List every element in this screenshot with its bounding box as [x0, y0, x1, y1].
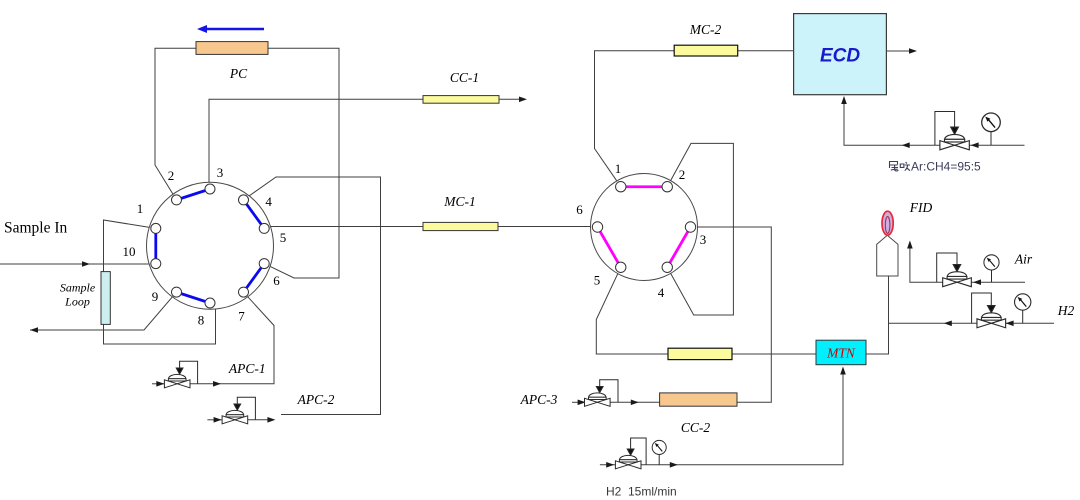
port V1-10 [151, 259, 161, 269]
label V1 numbers [123, 165, 287, 328]
arrow H2 bottom input [606, 462, 614, 468]
arrow Air input [973, 279, 981, 285]
wire valve2 port1 to MC-2 to ECD [595, 51, 794, 187]
wire makeup gas line to ECD [844, 97, 1025, 145]
arrow CC-1 out [519, 97, 527, 103]
wire Air line with riser [910, 242, 1025, 282]
label makeup gas chinese [889, 162, 910, 172]
arrow makeup input [971, 142, 979, 148]
svg-text:1: 1 [137, 201, 144, 216]
port V2-3 [685, 222, 695, 232]
arrow APC-2 output [267, 417, 275, 423]
wire APC-2 output [248, 419, 268, 421]
rotor V1 6-7 [244, 264, 265, 293]
port V1-6 [259, 259, 269, 269]
svg-text:CC-2: CC-2 [681, 420, 711, 435]
arrow APC-1 out [213, 381, 221, 387]
svg-text:ECD: ECD [820, 46, 860, 67]
label V2 numbers [576, 161, 706, 300]
svg-text:2: 2 [679, 167, 686, 182]
svg-text:2: 2 [168, 168, 175, 183]
port V1-4 [239, 195, 249, 205]
arrow makeup output [902, 142, 910, 148]
sample loop [101, 272, 110, 325]
port V1-3 [205, 184, 215, 194]
rotor V1 8-9 [177, 292, 211, 303]
svg-text:MC-1: MC-1 [443, 194, 476, 209]
svg-text:H2: H2 [1057, 303, 1075, 318]
svg-text:5: 5 [280, 230, 287, 245]
arrow H2 right output [944, 321, 952, 327]
svg-text:10: 10 [123, 244, 136, 259]
arrow APC-2 input [214, 417, 222, 423]
rotor V1 4-5 [244, 200, 265, 229]
regulator APC-2 [222, 397, 255, 424]
port V2-5 [616, 262, 626, 272]
svg-text:APC-3: APC-3 [520, 392, 558, 407]
valve V1 body [147, 182, 274, 309]
gauge H2 bottom [652, 440, 666, 464]
svg-text:3: 3 [217, 165, 224, 180]
wire valve1 port9 vent out [30, 292, 177, 330]
arrow H2 bottom output [670, 462, 678, 468]
valve V2 body [591, 174, 698, 281]
wire valve2 port5 to column to MTN [596, 267, 816, 354]
svg-text:Loop: Loop [64, 295, 90, 309]
svg-text:5: 5 [594, 273, 601, 288]
arrow into MTN bottom [840, 367, 846, 375]
wire valve1 port7 from APC-1 [190, 292, 274, 384]
methanizer MTN box [816, 340, 866, 365]
svg-text:7: 7 [238, 309, 245, 324]
wire valve1 port2 to PC left [155, 48, 196, 200]
port V1-2 [172, 195, 182, 205]
column CC-2 [660, 393, 737, 406]
wire H2 right line to FID junction [889, 322, 1055, 324]
wire Sample In to valve1 port 10 [0, 263, 156, 265]
arrow ECD outlet [909, 48, 917, 54]
rotor V1 2-3 [177, 189, 211, 200]
port V2-2 [662, 182, 672, 192]
wire APC-3 input [572, 401, 586, 403]
wire PC right to valve1 port6 [264, 48, 339, 278]
svg-text:CC-1: CC-1 [450, 70, 479, 85]
port V1-8 [205, 298, 215, 308]
svg-text:8: 8 [198, 313, 205, 328]
arrow carrier flow above PC [205, 28, 264, 31]
svg-text:4: 4 [265, 194, 272, 209]
column MC-1 [423, 222, 498, 230]
svg-text:APC-1: APC-1 [228, 361, 266, 376]
arrow vent left [30, 327, 38, 333]
rotor V1 1-10 [154, 228, 157, 263]
regulator Air [937, 253, 972, 287]
svg-text:MTN: MTN [826, 346, 856, 361]
rotor V2 3-4 [667, 227, 690, 267]
regulator makeup (wei chui) [935, 112, 969, 150]
arrow APC-1 input [156, 381, 164, 387]
column aux yellow [668, 348, 732, 359]
svg-text:Sample In: Sample In [4, 220, 68, 237]
wire MC-1 line valve1 port5 to valve2 port6 [264, 227, 597, 229]
detector ECD box [794, 14, 887, 95]
svg-text:Ar:CH4=95:5: Ar:CH4=95:5 [911, 160, 981, 174]
regulator H2 right [972, 293, 1006, 328]
svg-text:MC-2: MC-2 [689, 22, 722, 37]
svg-text:H2 15ml/min: H2 15ml/min [606, 485, 677, 499]
svg-text:Air: Air [1014, 252, 1033, 267]
svg-text:Sample: Sample [60, 281, 96, 295]
wire ECD outlet [886, 50, 910, 52]
rotor V2 5-6 [598, 227, 621, 267]
wire APC-1 input [152, 383, 164, 385]
port V1-7 [239, 287, 249, 297]
column CC-1 [423, 96, 499, 104]
svg-text:9: 9 [152, 289, 159, 304]
arrow Sample In flow [82, 261, 90, 267]
port V1-5 [259, 223, 269, 233]
wire MTN right up to FID bottom [866, 276, 889, 354]
wire valve2 loop port2 to port4 [667, 143, 733, 315]
column MC-2 [674, 45, 738, 56]
port V2-1 [616, 182, 626, 192]
svg-text:3: 3 [700, 232, 707, 247]
wire APC-2 input [207, 419, 221, 421]
arrow H2 right input [1006, 321, 1014, 327]
FID flame [882, 211, 893, 235]
arrow Air riser up [907, 241, 913, 249]
wire valve1 port4 from APC-2 [244, 177, 381, 415]
detector FID body [877, 235, 898, 276]
regulator H2 bottom [615, 438, 646, 469]
port V2-6 [592, 222, 602, 232]
svg-text:1: 1 [615, 161, 622, 176]
svg-text:6: 6 [576, 202, 583, 217]
wire valve2 port3 to CC-2 to APC-3 [609, 227, 771, 402]
svg-text:6: 6 [273, 273, 280, 288]
arrow into CC-2 [631, 400, 639, 406]
arrow into ECD bottom [841, 96, 847, 104]
svg-text:APC-2: APC-2 [297, 392, 335, 407]
rotor V2 1-2 [621, 185, 668, 188]
port V2-4 [662, 262, 672, 272]
port V1-9 [172, 287, 182, 297]
arrow APC-3 input [578, 400, 586, 406]
gauge makeup [982, 113, 1001, 145]
svg-text:4: 4 [658, 285, 665, 300]
wire valve1 port1 to sample loop to port 8 [104, 220, 216, 344]
svg-text:PC: PC [229, 66, 248, 81]
gauge Air [984, 255, 999, 282]
wire MTN bottom supply from H2 regulator [600, 369, 843, 465]
svg-text:FID: FID [909, 200, 933, 215]
regulator APC-3 [585, 380, 619, 407]
regulator APC-1 [164, 361, 197, 388]
wire valve1 port3 to CC-1 out [209, 99, 521, 186]
gauge H2 right [1015, 294, 1031, 323]
column PC [196, 42, 268, 55]
port V1-1 [151, 223, 161, 233]
